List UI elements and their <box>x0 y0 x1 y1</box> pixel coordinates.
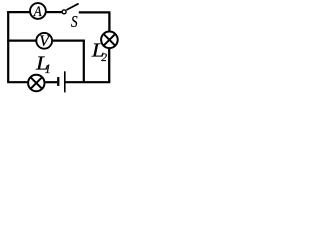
battery: long positive plate <box>64 71 66 92</box>
wire: branch vertical down to bottom wire <box>83 41 85 83</box>
wire: lamp L2 down to bottom wire <box>108 48 110 82</box>
svg-text:1: 1 <box>45 62 51 76</box>
wire: bottom-left from rail to lamp L1 <box>7 81 27 83</box>
wire: lamp L1 to battery <box>45 81 57 83</box>
voltmeter V <box>36 33 52 50</box>
ammeter A <box>30 3 46 19</box>
lamp L1 <box>28 52 51 91</box>
wire: right vertical, corner down to lamp L2 <box>108 12 110 31</box>
battery: short negative plate <box>57 77 59 86</box>
svg-text:2: 2 <box>101 52 107 64</box>
wire: left vertical rail <box>7 11 9 82</box>
lamp L2 <box>91 32 118 65</box>
wire: switch to top-right corner <box>79 11 111 13</box>
switch S <box>62 4 79 32</box>
svg-text:A: A <box>33 3 42 19</box>
wire: bottom wire, battery to right vertical <box>65 81 110 83</box>
svg-text:S: S <box>71 14 78 32</box>
wire: voltmeter to branch corner <box>53 39 85 41</box>
wire: middle row left, rail to voltmeter <box>7 39 36 41</box>
wire: top-left horizontal from left rail to ammeter <box>7 11 29 13</box>
wire: ammeter to switch <box>47 11 62 13</box>
